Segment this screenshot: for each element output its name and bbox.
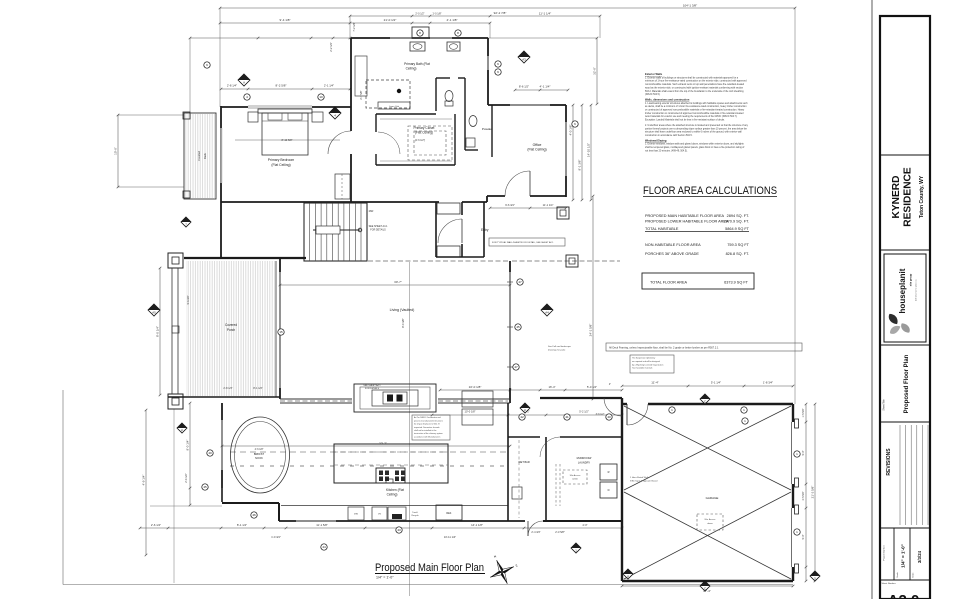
svg-text:5'-2 1/2": 5'-2 1/2" xyxy=(579,410,589,414)
svg-text:(2'-6 1/2"): (2'-6 1/2") xyxy=(415,139,426,142)
mid dimension row above garage xyxy=(440,389,622,391)
fireplace note box xyxy=(412,415,450,440)
svg-text:See Full and landscape: See Full and landscape xyxy=(548,346,572,348)
svg-text:9'-0": 9'-0" xyxy=(802,534,805,539)
garage door panels xyxy=(795,419,799,428)
svg-text:Entry: Entry xyxy=(481,228,489,232)
svg-text:Proposed Main Floor Plan: Proposed Main Floor Plan xyxy=(375,562,484,574)
dimension line bedroom top xyxy=(221,88,350,90)
svg-text:(Flat Ceiling): (Flat Ceiling) xyxy=(527,148,546,152)
svg-text:(Flat Ceiling): (Flat Ceiling) xyxy=(415,131,433,135)
svg-text:accordance with Manufacturers: accordance with Manufacturers xyxy=(414,435,440,438)
nightstands xyxy=(248,112,258,122)
refrigerator xyxy=(436,505,462,520)
svg-text:4'-0": 4'-0" xyxy=(582,523,587,527)
svg-text:Mtn. Access: Mtn. Access xyxy=(705,518,716,521)
svg-text:Exterior Walls: Exterior Walls xyxy=(645,72,663,76)
svg-text:46: 46 xyxy=(252,513,256,517)
bath roof bump xyxy=(412,27,429,38)
svg-text:PROPOSED LOWER HABITABLE FLOOR: PROPOSED LOWER HABITABLE FLOOR AREA xyxy=(645,220,729,224)
svg-text:26R: 26R xyxy=(369,209,374,213)
kitchen soffit dashes upper xyxy=(230,451,508,453)
svg-text:Primary Bedroom: Primary Bedroom xyxy=(268,158,295,162)
svg-text:40: 40 xyxy=(208,451,212,455)
svg-text:759.3 SQ FT: 759.3 SQ FT xyxy=(727,243,749,247)
svg-text:FLOOR AREA CALCULATIONS: FLOOR AREA CALCULATIONS xyxy=(643,185,777,197)
svg-text:REVISIONS: REVISIONS xyxy=(886,448,892,476)
svg-text:Office: Office xyxy=(533,143,542,147)
garage east wall xyxy=(792,404,794,422)
svg-text:2'-6 1/4": 2'-6 1/4" xyxy=(151,523,161,527)
bath left wall xyxy=(350,38,352,107)
entry west wall xyxy=(435,202,437,257)
svg-text:not less than 20 minutes. (499: not less than 20 minutes. (499-49, 504.5… xyxy=(645,149,688,152)
window tag circles xyxy=(244,94,250,100)
dimension line 92ft xyxy=(350,15,600,17)
svg-text:process manufactured instructi: process manufactured instructions xyxy=(414,419,443,422)
dimension line y38 left xyxy=(190,37,350,39)
svg-text:1'-5 5/8": 1'-5 5/8" xyxy=(802,408,805,417)
mudroom west wall xyxy=(545,437,547,521)
bath top wall xyxy=(351,37,390,39)
wet bar dashes xyxy=(518,440,520,518)
typical wall detail box xyxy=(489,238,565,246)
svg-text:45: 45 xyxy=(516,325,520,329)
svg-text:A2.0: A2.0 xyxy=(888,592,920,599)
svg-text:A3: A3 xyxy=(522,57,526,61)
garage top dimension xyxy=(622,385,793,387)
svg-text:Walls, dimensions and construc: Walls, dimensions and construction xyxy=(645,97,690,101)
svg-text:Primary Closet: Primary Closet xyxy=(414,126,435,130)
svg-text:21'-0 1/2": 21'-0 1/2" xyxy=(384,18,397,22)
svg-text:3'-6 1/2": 3'-6 1/2" xyxy=(596,413,605,416)
svg-text:40: 40 xyxy=(607,415,611,419)
svg-text:Kitchen (Flat: Kitchen (Flat xyxy=(386,488,404,492)
svg-text:2. Underfloor areas where the: 2. Underfloor areas where the attached s… xyxy=(645,124,749,127)
svg-text:1/4" = 1'-0": 1/4" = 1'-0" xyxy=(376,576,394,580)
svg-text:2970.9 SQ. FT.: 2970.9 SQ. FT. xyxy=(723,220,749,224)
svg-text:TOTAL FLOOR AREA: TOTAL FLOOR AREA xyxy=(650,281,688,285)
mudroom north wall xyxy=(508,436,540,438)
bed xyxy=(258,109,312,113)
svg-text:4'-1 1/8": 4'-1 1/8" xyxy=(447,18,458,22)
svg-text:Project Number: Project Number xyxy=(883,545,886,560)
svg-text:1 Hour Rated Wall:: 1 Hour Rated Wall: xyxy=(630,476,649,479)
svg-text:Primary Bath (Flat: Primary Bath (Flat xyxy=(404,62,430,66)
garage fire door arc xyxy=(627,404,648,425)
closet right wall xyxy=(454,114,456,165)
svg-text:5864.9 SQ FT: 5864.9 SQ FT xyxy=(725,227,750,231)
svg-text:2'-0 1/2": 2'-0 1/2" xyxy=(415,13,424,16)
garage cross brace lower xyxy=(624,492,791,579)
svg-text:14'-10 1/2": 14'-10 1/2" xyxy=(587,143,591,157)
column grid line vertical xyxy=(409,262,411,596)
svg-text:10'-6": 10'-6" xyxy=(114,147,118,155)
entry benches xyxy=(437,203,460,214)
garage west wall xyxy=(621,398,623,581)
toilet WC xyxy=(445,91,453,102)
svg-text:C: C xyxy=(704,586,706,590)
svg-text:houseplanit: houseplanit xyxy=(898,268,907,313)
garage attic access dashed xyxy=(697,514,723,530)
svg-text:NON-HABITABLE FLOOR AREA: NON-HABITABLE FLOOR AREA xyxy=(645,243,701,247)
svg-text:1/4" = 1'-0": 1/4" = 1'-0" xyxy=(901,544,906,568)
svg-text:15: 15 xyxy=(279,330,283,334)
porch east edge xyxy=(275,261,277,397)
svg-text:8'-1 1/4": 8'-1 1/4" xyxy=(237,523,247,527)
nook west wall xyxy=(221,403,223,420)
svg-text:TOTAL HABITABLE: TOTAL HABITABLE xyxy=(645,227,679,231)
svg-text:FOR DETAILS: FOR DETAILS xyxy=(370,229,386,232)
linen cabinet xyxy=(378,102,410,109)
project number box xyxy=(893,528,895,580)
bottom dimension chain xyxy=(140,527,622,529)
svg-text:42: 42 xyxy=(520,415,524,419)
svg-text:wood materials for exterior us: wood materials for exterior use and meet… xyxy=(645,115,738,118)
garage overall dimension xyxy=(814,404,816,581)
kitchen island xyxy=(334,444,448,483)
svg-text:noncombustible materials. Such: noncombustible materials. Such exhaust v… xyxy=(645,83,745,86)
svg-text:2'-8 1/4": 2'-8 1/4" xyxy=(227,84,237,88)
svg-text:1'-8 3/4": 1'-8 3/4" xyxy=(763,381,773,385)
svg-text:8'-6 1/2": 8'-6 1/2" xyxy=(519,85,529,89)
washer dryer xyxy=(600,464,617,480)
left site line xyxy=(62,390,64,585)
svg-text:MUDROOM/: MUDROOM/ xyxy=(577,456,592,460)
covered deck hatch xyxy=(185,114,216,198)
closet door arc xyxy=(378,132,400,154)
svg-text:2'-3 5/8": 2'-3 5/8" xyxy=(555,530,565,534)
powder toilet xyxy=(469,116,477,127)
svg-text:P: P xyxy=(181,428,183,432)
porch south wall xyxy=(168,396,280,398)
left lower dimension chain xyxy=(189,403,191,505)
stair handrail xyxy=(313,229,360,231)
diamond below garage xyxy=(700,581,710,591)
svg-text:Recycle: Recycle xyxy=(411,515,419,517)
svg-text:Powder: Powder xyxy=(482,127,492,131)
svg-text:construction in accordance wit: construction in accordance with Section … xyxy=(645,134,693,137)
svg-text:Covered: Covered xyxy=(197,151,201,161)
dimension extension verticals top xyxy=(219,8,221,107)
dimension line left of deck xyxy=(117,115,119,187)
svg-text:1'-0 1/8": 1'-0 1/8" xyxy=(432,13,441,16)
vaulted ceiling dashed line xyxy=(368,260,510,262)
svg-text:for all gas fireplaces to Sele: for all gas fireplaces to Sele. B xyxy=(414,423,440,426)
garage right dimension chain xyxy=(805,404,807,581)
wet bar west wall xyxy=(507,403,509,521)
svg-text:8'-2 5/8": 8'-2 5/8" xyxy=(276,84,287,88)
svg-text:2894 SQ. FT.: 2894 SQ. FT. xyxy=(727,214,749,218)
nook corner wall xyxy=(221,488,223,502)
patio dashed line east xyxy=(512,260,620,262)
svg-text:SEE SHEET A4.1: SEE SHEET A4.1 xyxy=(363,384,381,387)
nook table ellipse xyxy=(231,417,290,493)
svg-text:are required and will be desig: are required and will be designed xyxy=(632,360,660,363)
kitchen cabinets xyxy=(348,507,364,520)
svg-text:4": 4" xyxy=(609,383,611,386)
deck framing note strip xyxy=(606,343,802,351)
svg-text:RESIDENCE: RESIDENCE xyxy=(903,167,914,227)
svg-text:10'-11 1/4": 10'-11 1/4" xyxy=(444,535,456,539)
title block dividers xyxy=(880,154,930,156)
bedroom top window xyxy=(248,105,312,107)
kitchen soffit dashes lower xyxy=(230,465,508,467)
svg-text:by a Wyoming Licensed Organiza: by a Wyoming Licensed Organization xyxy=(632,363,663,366)
porch window tags xyxy=(278,329,284,335)
living width dimension 30ft xyxy=(280,284,510,286)
living west wall xyxy=(279,258,281,272)
svg-text:KYNERD: KYNERD xyxy=(891,175,902,218)
shower dashed enclosure xyxy=(366,80,410,108)
kitchen range xyxy=(376,468,405,483)
svg-text:9'-1 3/8": 9'-1 3/8" xyxy=(578,160,582,171)
hall south-east wall xyxy=(540,397,622,399)
svg-text:timber construction or constru: timber construction or constructed of ap… xyxy=(645,112,744,115)
svg-text:43: 43 xyxy=(397,528,401,532)
svg-text:11'-4": 11'-4" xyxy=(651,381,658,385)
left porch dimension xyxy=(159,268,161,395)
powder room walls xyxy=(464,111,466,150)
svg-text:Covered: Covered xyxy=(225,323,237,327)
svg-text:PORCHES 36" ABOVE GRADE: PORCHES 36" ABOVE GRADE xyxy=(645,252,699,256)
office right dimension chain xyxy=(572,105,574,200)
houseplanit logo box xyxy=(884,254,926,342)
svg-text:8'-1 1/4": 8'-1 1/4" xyxy=(253,387,262,390)
svg-text:47: 47 xyxy=(514,365,518,369)
bath right wall xyxy=(487,38,489,56)
svg-text:36in Access: 36in Access xyxy=(570,474,581,477)
bedroom left wall xyxy=(220,106,222,128)
garage south wall xyxy=(622,580,793,582)
svg-text:Sheet Number: Sheet Number xyxy=(882,582,896,585)
svg-text:As Per R408.3 Combustion and: As Per R408.3 Combustion and xyxy=(414,416,441,419)
svg-text:above: above xyxy=(707,523,713,525)
svg-text:Scale: Scale xyxy=(897,571,899,577)
bathtub xyxy=(355,56,367,96)
svg-text:D: D xyxy=(608,488,610,492)
north arrow compass xyxy=(482,548,522,589)
kitchen south wall xyxy=(279,520,296,522)
closet island dashed xyxy=(408,126,452,160)
svg-text:11'-1 5/8": 11'-1 5/8" xyxy=(316,523,328,527)
porch beam xyxy=(171,268,173,394)
svg-text:10'-0 1/8": 10'-0 1/8" xyxy=(465,410,476,414)
garage cross brace upper xyxy=(624,406,791,490)
deck posts xyxy=(183,112,190,119)
fireplace xyxy=(354,384,436,412)
dimension row y415 wet bar xyxy=(432,414,622,416)
mudroom south wall xyxy=(543,520,622,522)
svg-text:Proposed Floor Plan: Proposed Floor Plan xyxy=(904,354,910,413)
svg-text:C: C xyxy=(704,399,706,403)
dimension line upper left xyxy=(220,22,490,24)
svg-text:2'-4 3/4": 2'-4 3/4" xyxy=(531,531,540,534)
office right wall xyxy=(565,105,567,122)
svg-text:NOOK: NOOK xyxy=(255,456,263,460)
svg-text:Porch: Porch xyxy=(227,328,236,332)
svg-text:portion thereof projects over: portion thereof projects over a descendi… xyxy=(645,127,748,130)
svg-text:wood as the exterior side, or: wood as the exterior side, or constructe… xyxy=(645,86,744,89)
wet bar sink xyxy=(512,487,522,499)
svg-text:minimum of 1-hour fire-resista: minimum of 1-hour fire-resistance-rated … xyxy=(645,80,747,83)
bedroom door arc xyxy=(328,131,351,154)
svg-text:1'-0 3/4": 1'-0 3/4" xyxy=(271,535,281,539)
water closet walls xyxy=(435,78,437,111)
svg-text:R: R xyxy=(608,470,610,474)
svg-text:1. Exterior walls of building: 1. Exterior walls of buildings or struct… xyxy=(645,76,739,79)
powder sink xyxy=(466,138,475,147)
svg-text:2'-4 1/2": 2'-4 1/2" xyxy=(184,473,188,483)
svg-text:9'-6 3/4": 9'-6 3/4" xyxy=(505,203,515,207)
svg-text:44: 44 xyxy=(322,545,326,549)
garage top wall xyxy=(622,403,627,405)
bedroom right wall xyxy=(350,107,352,131)
svg-text:A: A xyxy=(243,80,245,84)
mudroom exterior door arc xyxy=(528,521,543,536)
svg-text:826.8 SQ. FT.: 826.8 SQ. FT. xyxy=(726,252,749,256)
bath sink cabinets xyxy=(410,42,425,51)
office top wall xyxy=(488,104,510,106)
office bottom wall xyxy=(487,195,505,197)
interior wall bath-closet xyxy=(376,113,436,115)
svg-text:drawings for patio: drawings for patio xyxy=(548,349,566,352)
svg-text:A5: A5 xyxy=(152,310,156,314)
svg-text:Date: Date xyxy=(912,572,915,577)
svg-text:45: 45 xyxy=(203,485,207,489)
entry south wall xyxy=(436,256,484,258)
svg-text:30'-7": 30'-7" xyxy=(394,280,402,284)
svg-text:inspected. Decorative shrouds: inspected. Decorative shrouds xyxy=(414,426,439,429)
svg-text:LAUNDRY: LAUNDRY xyxy=(578,461,591,465)
svg-text:104'-1 3/8": 104'-1 3/8" xyxy=(683,4,697,8)
svg-text:definitive home plans co.: definitive home plans co. xyxy=(915,279,918,301)
svg-text:Linen Cab: Linen Cab xyxy=(389,106,400,108)
mudroom door arc xyxy=(540,437,560,457)
suspension note box xyxy=(630,355,674,373)
pantry cabinets xyxy=(462,391,493,407)
svg-text:2'-7 5/8": 2'-7 5/8" xyxy=(360,90,363,99)
svg-text:Deck: Deck xyxy=(203,152,207,159)
living east window wall xyxy=(509,261,511,272)
svg-text:10'-0 1/8": 10'-0 1/8" xyxy=(469,385,482,389)
svg-text:9'-6 3/8": 9'-6 3/8" xyxy=(187,295,190,304)
svg-text:5/8in Type X Gypsum Board: 5/8in Type X Gypsum Board xyxy=(630,480,658,483)
svg-text:9'-0": 9'-0" xyxy=(802,450,805,455)
svg-text:WET BAR: WET BAR xyxy=(518,461,530,464)
svg-text:24'-1 5/8": 24'-1 5/8" xyxy=(589,324,593,337)
door tag diamonds xyxy=(238,74,250,86)
svg-text:5'-0 1/4": 5'-0 1/4" xyxy=(587,385,597,389)
svg-text:PROPOSED MAIN HABITABLE FLOOR: PROPOSED MAIN HABITABLE FLOOR AREA xyxy=(645,214,725,218)
living south glass wall right xyxy=(438,398,510,400)
svg-text:Exception: Landed Materials sh: Exception: Landed Materials shall not be… xyxy=(645,119,725,122)
closet bottom wall xyxy=(376,164,455,166)
patio piers xyxy=(557,207,569,219)
svg-text:(IWUIC 504.5).: (IWUIC 504.5). xyxy=(645,94,661,96)
svg-text:32'-6": 32'-6" xyxy=(593,67,597,75)
hall patio door arc xyxy=(604,398,622,416)
svg-text:REF.: REF. xyxy=(446,512,452,515)
svg-text:21'-3 5/8": 21'-3 5/8" xyxy=(811,486,815,499)
svg-text:A4: A4 xyxy=(545,310,549,314)
svg-text:11'-1 1/4": 11'-1 1/4" xyxy=(539,12,551,16)
garage bottom dimension xyxy=(622,585,793,587)
svg-text:2'-2 1/4": 2'-2 1/4" xyxy=(329,42,333,52)
svg-text:92'-2 7/8": 92'-2 7/8" xyxy=(494,11,507,15)
svg-text:2'-1 1/4": 2'-1 1/4" xyxy=(324,84,334,88)
svg-text:Teton County, WY: Teton County, WY xyxy=(919,175,925,218)
column grid line vertical left xyxy=(173,409,175,583)
svg-text:3/3/24: 3/3/24 xyxy=(917,550,922,563)
title block outer border xyxy=(880,16,930,599)
svg-text:4'-1 1/4": 4'-1 1/4" xyxy=(540,85,551,89)
svg-text:4'-6 1/8": 4'-6 1/8" xyxy=(255,448,264,451)
dimension bath right 32-6 xyxy=(596,38,598,104)
living south glass dashed xyxy=(280,400,352,402)
svg-text:or constructed of approved non: or constructed of approved noncombustibl… xyxy=(645,109,745,112)
stair enclosure xyxy=(304,203,367,261)
svg-text:5'-1 1/4": 5'-1 1/4" xyxy=(711,381,721,385)
kitchen counter line xyxy=(281,505,508,507)
living south glass wall left xyxy=(280,398,352,400)
svg-text:Living (Vaulted): Living (Vaulted) xyxy=(390,308,415,312)
bath top windows xyxy=(390,36,412,38)
svg-text:Windows/Glazing: Windows/Glazing xyxy=(645,138,667,142)
bedroom left window xyxy=(219,128,221,183)
svg-text:Ceiling): Ceiling) xyxy=(387,493,398,497)
svg-text:42x60: 42x60 xyxy=(572,479,578,481)
mudroom chase dashed xyxy=(555,464,557,506)
svg-text:OV: OV xyxy=(378,514,382,516)
dimension row y208 below office xyxy=(490,207,566,209)
svg-text:503.2. Materials shall extend: 503.2. Materials shall extend from the t… xyxy=(645,90,744,93)
primary bedroom top wall xyxy=(221,106,248,108)
svg-text:P: P xyxy=(524,408,526,412)
overall dimension line 104ft top xyxy=(220,7,795,9)
svg-text:1. Exterior windows, window w: 1. Exterior windows, window walls and gl… xyxy=(645,143,745,146)
svg-text:shall not be installed at the: shall not be installed at the xyxy=(414,429,436,432)
svg-text:(Flat Ceiling): (Flat Ceiling) xyxy=(271,163,290,167)
svg-text:Trash/: Trash/ xyxy=(412,512,418,514)
svg-text:Ceiling): Ceiling) xyxy=(406,67,417,71)
svg-text:site group: site group xyxy=(909,273,913,286)
svg-text:16'-4": 16'-4" xyxy=(548,385,555,389)
svg-text:11'-1 1/4": 11'-1 1/4" xyxy=(543,203,554,207)
svg-text:The Suspension Upholstery: The Suspension Upholstery xyxy=(632,357,655,360)
covered deck outline xyxy=(184,113,216,199)
drawing border right xyxy=(871,0,873,599)
svg-text:shall be tempered glass, multi: shall be tempered glass, multilayered gl… xyxy=(645,146,745,149)
svg-text:BRKFST: BRKFST xyxy=(254,452,265,456)
svg-text:2'-5 5/8": 2'-5 5/8" xyxy=(802,491,805,500)
svg-text:FOR DETAILS: FOR DETAILS xyxy=(365,387,380,390)
svg-text:termination of the chimney sys: termination of the chimney system xyxy=(414,432,443,435)
svg-text:4'-9 1/4": 4'-9 1/4" xyxy=(142,475,146,486)
garage door headers xyxy=(791,422,793,484)
garage top wall window tags xyxy=(669,407,675,413)
svg-text:8'-0 1/4": 8'-0 1/4" xyxy=(156,326,160,337)
porch north wall xyxy=(184,257,280,259)
stair treads xyxy=(309,203,311,261)
bedroom closet xyxy=(335,174,350,199)
svg-text:Your favorable materials: Your favorable materials xyxy=(632,367,652,370)
entry east wall xyxy=(461,202,463,215)
mudroom access dashed box xyxy=(563,470,587,484)
svg-text:47: 47 xyxy=(518,280,522,284)
svg-text:41: 41 xyxy=(565,415,569,419)
svg-text:7'-2 1/4": 7'-2 1/4" xyxy=(353,22,356,31)
